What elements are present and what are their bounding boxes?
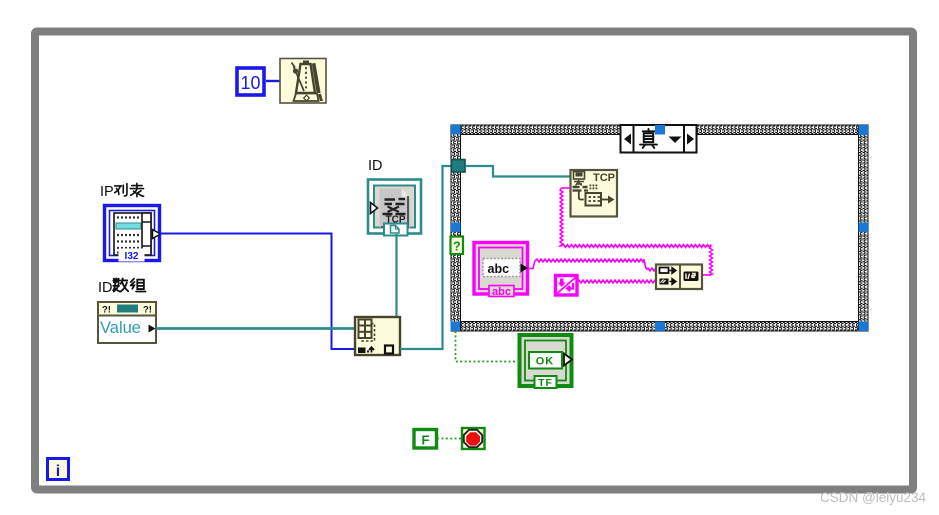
- tunnel top-center: [655, 125, 665, 135]
- false constant F: [414, 430, 437, 449]
- svg-text:abc: abc: [488, 262, 510, 276]
- case selector terminal ?: [451, 237, 464, 255]
- svg-text:ID: ID: [368, 158, 383, 174]
- svg-text:abc: abc: [492, 286, 511, 298]
- stop button: [462, 428, 485, 449]
- wire ID refnum down to index array: [395, 234, 397, 317]
- svg-text:10: 10: [240, 73, 260, 93]
- svg-text:F: F: [422, 433, 430, 448]
- svg-text:?!: ?!: [143, 305, 152, 316]
- wire OK to case tunnel (dashed green): [456, 331, 520, 362]
- svg-text:Value: Value: [100, 319, 141, 337]
- tunnel bottom-left: [451, 322, 461, 332]
- svg-text:?: ?: [453, 240, 461, 254]
- svg-text:IP: IP: [100, 184, 114, 200]
- label IP列表: [100, 183, 144, 200]
- wire abc to converter: [528, 259, 656, 271]
- wire Value to index array: [156, 327, 355, 330]
- tunnel bottom-center: [655, 322, 665, 332]
- svg-text:i: i: [56, 463, 60, 480]
- tunnel mid-right: [859, 223, 869, 233]
- IP list array control (I32): [105, 206, 161, 263]
- numeric constant 10: [237, 68, 264, 95]
- TCP connection refnum ID: [368, 180, 421, 236]
- svg-text:TCP: TCP: [593, 172, 615, 184]
- string control abc: [474, 243, 528, 299]
- wire F to stop button (dashed green): [437, 438, 461, 440]
- svg-text:OK: OK: [536, 356, 555, 368]
- wire index array output to case tunnel: [400, 166, 452, 349]
- end of line constant: [556, 276, 578, 296]
- svg-text:ID: ID: [98, 280, 113, 296]
- case selector label 真: [621, 125, 697, 153]
- tunnel mid-left blue: [451, 223, 461, 233]
- svg-text:I32: I32: [125, 251, 139, 262]
- index array function: [355, 317, 400, 355]
- svg-text:CSDN @leiyu234: CSDN @leiyu234: [820, 490, 926, 505]
- teal input tunnel (connection): [452, 160, 466, 173]
- tunnel top-left: [451, 125, 461, 135]
- tunnel bottom-right: [859, 322, 869, 332]
- OK button boolean: [520, 335, 573, 389]
- svg-text:?!: ?!: [102, 305, 111, 316]
- loop iteration terminal i: [48, 459, 69, 481]
- wire IP array to index array: [160, 234, 355, 350]
- wire EOL to converter: [577, 280, 656, 283]
- tunnel top-right: [859, 125, 869, 135]
- svg-text:TF: TF: [538, 377, 553, 389]
- case structure border (checkered): [451, 125, 868, 331]
- wire 10 to wait: [266, 80, 280, 82]
- ID array property node (Value): [98, 302, 156, 343]
- string wire TCP read to converter (around): [560, 188, 712, 275]
- TCP read function icon: [571, 170, 618, 217]
- label ID数组: [98, 278, 145, 296]
- wait until next ms multiple (metronome) icon: [280, 59, 326, 104]
- wire tunnel to TCP read: [465, 166, 571, 177]
- string to byte array converter: [656, 265, 702, 290]
